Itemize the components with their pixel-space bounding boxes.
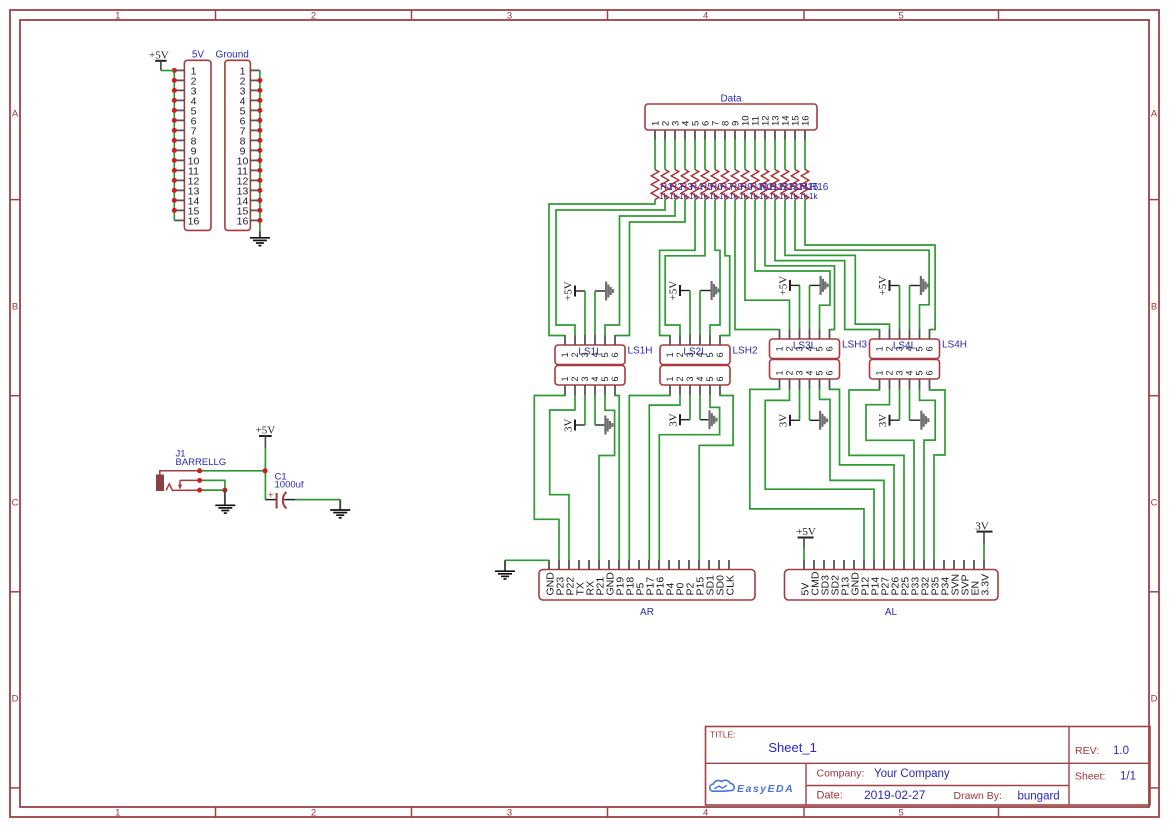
junction Ground pin 7: [257, 128, 262, 133]
title block outline: [706, 727, 1151, 806]
svg-text:5: 5: [915, 370, 925, 375]
resistor R14: [781, 170, 789, 200]
title block divider horizontal under title row: [706, 762, 1151, 764]
connector LS2 upper pin 6 stub: [719, 335, 721, 345]
ground arrow symbol above LS3: [810, 284, 820, 286]
connector LS2 lower pin 5 stub: [709, 385, 711, 395]
connector AL pin SD2 stub: [833, 560, 835, 570]
connector AR pin CLK stub: [728, 560, 730, 570]
connector LS3 upper pin 4 stub: [809, 329, 811, 339]
connector Data pin 3 stub: [674, 130, 676, 140]
svg-text:5V: 5V: [192, 50, 205, 61]
connector LS2 lower pin 1 stub: [669, 385, 671, 395]
wire LS3 pin1 to AL P12: [750, 389, 864, 560]
wire +5V to LS2 upper pin 3: [689, 291, 691, 336]
svg-text:5: 5: [705, 376, 715, 381]
power +5V symbol top-left: [155, 60, 166, 62]
connector Ground pin 14 stub: [250, 199, 260, 201]
connector AL pin GND stub: [853, 560, 855, 570]
svg-text:6: 6: [715, 352, 725, 357]
connector LS4 lower pin 1 stub: [879, 379, 881, 389]
connector AL pin P34 stub: [943, 560, 945, 570]
connector Ground pin 13 stub: [250, 189, 260, 191]
connector 5V pin 5 stub: [174, 109, 184, 111]
wire Data pin 4 to resistor R4: [684, 140, 686, 170]
connector LS1 upper pin 2 stub: [574, 335, 576, 345]
connector AR pin P16 stub: [658, 560, 660, 570]
wire R3 to LS1 pin5: [605, 200, 675, 336]
wire J1 pin3 to ground node: [200, 489, 225, 491]
connector AR pin P22 stub: [568, 560, 570, 570]
svg-text:3: 3: [507, 11, 512, 22]
svg-text:LSH2: LSH2: [733, 346, 758, 357]
svg-text:+5V: +5V: [149, 49, 169, 61]
wire LS1 pin2 to AR P22: [550, 395, 575, 560]
junction Ground pin 15: [257, 208, 262, 213]
svg-text:3: 3: [580, 352, 590, 357]
svg-text:+5V: +5V: [877, 276, 889, 296]
svg-text:4: 4: [695, 376, 705, 381]
connector AR pin P18 stub: [628, 560, 630, 570]
connector LS3 lower pin 4 stub: [809, 379, 811, 389]
wire Data pin 5 to resistor R5: [694, 140, 696, 170]
wire R2 to LS1 pin2: [556, 200, 665, 336]
ground arrow symbol below LS1: [595, 424, 604, 426]
connector Ground pin 2 stub: [250, 79, 260, 81]
connector Ground pin 5 stub: [250, 109, 260, 111]
svg-text:B: B: [1151, 302, 1157, 313]
resistor R7: [711, 170, 719, 200]
svg-text:2019-02-27: 2019-02-27: [864, 788, 926, 802]
svg-text:4: 4: [590, 376, 600, 381]
connector LS4 upper pin 4 stub: [909, 329, 911, 339]
connector AL pin 3.3V stub: [983, 560, 985, 570]
junction Ground pin 2: [257, 78, 262, 83]
svg-text:4: 4: [703, 11, 708, 22]
junction 5V pin 1: [172, 68, 177, 73]
connector LS2 lower pin 3 stub: [689, 385, 691, 395]
svg-text:16: 16: [237, 215, 249, 227]
connector 5V pin 8 stub: [174, 139, 184, 141]
resistor R2: [661, 170, 669, 200]
svg-text:1/1: 1/1: [1120, 771, 1136, 783]
svg-text:1: 1: [115, 808, 120, 819]
connector Ground pin 4 stub: [250, 99, 260, 101]
connector LS4 upper pin 6 stub: [929, 329, 931, 339]
svg-text:3: 3: [507, 808, 512, 819]
resistor R15: [791, 170, 799, 200]
ground arrow symbol below LS4: [910, 419, 921, 421]
connector Data pin 6 stub: [704, 130, 706, 140]
wire ground to LS1 lower pin 4: [594, 395, 596, 425]
connector LS3 upper pin 2 stub: [789, 329, 791, 339]
connector 5V pin 9 stub: [174, 149, 184, 151]
wire 3V to AL 3.3V pin: [983, 545, 985, 560]
connector 5V pin 7 stub: [174, 129, 184, 131]
junction 5V pin 10: [172, 158, 177, 163]
svg-text:+5V: +5V: [796, 526, 816, 538]
svg-text:5: 5: [815, 346, 825, 351]
junction ground node below J1: [222, 488, 227, 493]
connector LS4 lower pin 3 stub: [899, 379, 901, 389]
connector LS2 lower pin 6 stub: [719, 385, 721, 395]
svg-text:4: 4: [905, 346, 915, 351]
svg-text:1: 1: [560, 376, 570, 381]
svg-text:2: 2: [785, 346, 795, 351]
svg-text:4: 4: [805, 346, 815, 351]
svg-text:LS4H: LS4H: [942, 340, 967, 351]
junction 5V pin 2: [172, 78, 177, 83]
wire Data pin 8 to resistor R8: [724, 140, 726, 170]
frame tick top: [215, 10, 217, 20]
svg-text:EasyEDA: EasyEDA: [737, 783, 794, 795]
wire +5V to LS4 upper pin 3: [899, 286, 901, 330]
connector AL pin EN stub: [973, 560, 975, 570]
junction Ground pin 13: [257, 188, 262, 193]
frame tick bottom: [803, 807, 805, 817]
connector 5V outline: [184, 60, 211, 230]
junction 5V pin 8: [172, 138, 177, 143]
junction J1 pin2: [197, 478, 202, 483]
wire R11 to LS3 pin5: [755, 200, 830, 330]
power +5V symbol above LS2: [679, 285, 681, 296]
ground symbol right of C1: [339, 500, 341, 510]
connector 5V pin 14 stub: [174, 199, 184, 201]
connector Ground pin 3 stub: [250, 89, 260, 91]
connector AL pin P33 stub: [913, 560, 915, 570]
connector Data pin 5 stub: [694, 130, 696, 140]
connector AR pin RX stub: [588, 560, 590, 570]
connector Data pin 10 stub: [744, 130, 746, 140]
svg-text:4: 4: [695, 352, 705, 357]
wire Data pin 16 to resistor R16: [804, 140, 806, 170]
connector LS4 upper pin 3 stub: [899, 329, 901, 339]
connector LS4 lower pin 2 stub: [889, 379, 891, 389]
resistor R4: [681, 170, 689, 200]
wire Data pin 14 to resistor R14: [784, 140, 786, 170]
ground symbol below Ground connector: [259, 232, 261, 238]
connector AR pin GND stub: [548, 560, 550, 570]
connector LS2 upper pin 4 stub: [699, 335, 701, 345]
power +5V symbol above LS3: [789, 280, 791, 291]
wire R9 to LS3 pin1: [735, 200, 780, 330]
connector LS3 lower pin 3 stub: [799, 379, 801, 389]
wire ground to LS1 upper pin 4: [594, 291, 596, 335]
connector Data outline: [645, 104, 817, 130]
svg-text:+5V: +5V: [668, 281, 680, 301]
connector LS3 upper pin 5 stub: [819, 329, 821, 339]
connector LS1 lower pin 6 stub: [614, 385, 616, 395]
wire Data pin 10 to resistor R10: [744, 140, 746, 170]
connector AR pin P4 stub: [668, 560, 670, 570]
wire AR GND to ground: [505, 559, 549, 561]
svg-text:1: 1: [775, 370, 785, 375]
frame tick bottom: [998, 807, 1000, 817]
power +5V symbol above LS1: [574, 286, 576, 297]
svg-text:Data: Data: [720, 94, 742, 105]
svg-text:5: 5: [815, 370, 825, 375]
connector 5V pin 6 stub: [174, 119, 184, 121]
ground arrow symbol below LS2: [700, 419, 708, 421]
svg-text:5: 5: [899, 808, 904, 819]
svg-text:6: 6: [715, 376, 725, 381]
wire LS1 pin5 to AR P21: [599, 395, 615, 560]
power 3V symbol below LS3: [789, 415, 791, 426]
ground symbol left of AR: [504, 560, 506, 571]
resistor R1: [651, 170, 659, 200]
connector LS2L upper outline: [660, 345, 730, 365]
svg-text:2: 2: [570, 376, 580, 381]
connector Data pin 11 stub: [754, 130, 756, 140]
svg-text:3: 3: [895, 370, 905, 375]
connector LS1 upper pin 3 stub: [584, 335, 586, 345]
svg-text:4: 4: [590, 352, 600, 357]
svg-text:2: 2: [311, 11, 316, 22]
wire LS4 pin1 to AL P25: [849, 389, 904, 560]
junction Ground pin 14: [257, 198, 262, 203]
svg-text:D: D: [12, 694, 19, 705]
svg-text:D: D: [1151, 694, 1158, 705]
svg-text:Your Company: Your Company: [874, 768, 950, 780]
wire ground to LS4 lower pin 4: [909, 389, 911, 420]
junction 5V pin 4: [172, 98, 177, 103]
connector AR pin P21 stub: [598, 560, 600, 570]
EasyEDA logo: [710, 780, 794, 795]
junction J1 pin3: [197, 488, 202, 493]
connector AR pin P0 stub: [678, 560, 680, 570]
svg-text:6: 6: [925, 346, 935, 351]
wire +5V to 5V bus: [161, 70, 174, 72]
connector AL outline: [785, 570, 999, 601]
svg-text:1: 1: [665, 352, 675, 357]
frame tick bottom: [215, 807, 217, 817]
frame tick left: [10, 199, 20, 201]
connector J1 pin 2 switch: [180, 480, 200, 485]
connector LS1 lower pin 2 stub: [574, 385, 576, 395]
wire Data pin 9 to resistor R9: [734, 140, 736, 170]
connector LS1 lower pin 5 stub: [604, 385, 606, 395]
connector LS4 upper pin 2 stub: [889, 329, 891, 339]
svg-text:+5V: +5V: [778, 276, 790, 296]
wire R10 to LS3 pin2: [745, 200, 790, 330]
connector AL pin P27 stub: [883, 560, 885, 570]
resistor R11: [751, 170, 759, 200]
wire R6 to LS2 pin2: [665, 200, 705, 336]
frame tick top: [803, 10, 805, 20]
capacitor C1: [265, 499, 276, 501]
connector 5V pin 2 stub: [174, 79, 184, 81]
connector AL pin P12 stub: [863, 560, 865, 570]
wire LS2 pin5 to AR P16: [659, 395, 719, 560]
connector 5V pin 1 stub: [174, 69, 184, 71]
connector Ground pin 8 stub: [250, 139, 260, 141]
svg-text:6: 6: [825, 346, 835, 351]
junction 5V pin 13: [172, 188, 177, 193]
connector LS4 upper pin 5 stub: [919, 329, 921, 339]
svg-text:16: 16: [800, 115, 811, 126]
svg-text:C: C: [1151, 498, 1158, 509]
resistor R12: [761, 170, 769, 200]
junction Ground pin 16: [257, 218, 262, 223]
wire J1 pin2 to ground node: [200, 480, 225, 490]
connector LS1 lower pin 4 stub: [594, 385, 596, 395]
wire Ground bus vertical: [259, 70, 261, 231]
wire LS4 pin5 to AL P32: [920, 389, 936, 560]
connector LS3 lower outline: [770, 360, 840, 380]
resistor R5: [691, 170, 699, 200]
svg-text:4: 4: [703, 808, 708, 819]
connector AL pin P26 stub: [893, 560, 895, 570]
connector Data pin 9 stub: [734, 130, 736, 140]
wire R1 to LS1 pin1: [549, 200, 655, 336]
wire R13 to LS4 pin1: [775, 200, 880, 330]
frame tick top: [607, 10, 609, 20]
junction 5V pin 5: [172, 108, 177, 113]
svg-text:REV:: REV:: [1075, 745, 1099, 757]
wire Data pin 1 to resistor R1: [654, 140, 656, 170]
svg-text:2: 2: [675, 376, 685, 381]
connector Ground pin 12 stub: [250, 179, 260, 181]
junction 5V pin 3: [172, 88, 177, 93]
connector AL pin CMD stub: [813, 560, 815, 570]
svg-text:2: 2: [311, 808, 316, 819]
wire Data pin 6 to resistor R6: [704, 140, 706, 170]
svg-text:1k: 1k: [809, 192, 818, 201]
svg-text:1: 1: [665, 376, 675, 381]
svg-text:3.3V: 3.3V: [979, 574, 991, 596]
frame tick left: [10, 395, 20, 397]
power +5V symbol above C1: [259, 435, 272, 437]
svg-text:6: 6: [610, 352, 620, 357]
junction 5V pin 11: [172, 168, 177, 173]
connector LS2 lower pin 4 stub: [699, 385, 701, 395]
svg-text:3V: 3V: [563, 419, 575, 433]
ground symbol below J1: [224, 490, 226, 505]
resistor R10: [741, 170, 749, 200]
connector AL pin 5V stub: [803, 560, 805, 570]
connector Ground pin 6 stub: [250, 119, 260, 121]
wire LS4 pin2 to AL P33: [866, 389, 914, 560]
junction Ground pin 11: [257, 168, 262, 173]
connector LS2 upper pin 1 stub: [669, 335, 671, 345]
wire LS1 pin1 to AR P23: [534, 395, 565, 560]
connector Data pin 2 stub: [664, 130, 666, 140]
connector LS2 upper pin 2 stub: [679, 335, 681, 345]
connector AR pin P19 stub: [618, 560, 620, 570]
junction 5V pin 15: [172, 208, 177, 213]
connector LS3 lower pin 6 stub: [829, 379, 831, 389]
wire LS3 pin6 to AL P26: [830, 389, 895, 560]
junction 5V pin 14: [172, 198, 177, 203]
svg-text:6: 6: [925, 370, 935, 375]
connector 5V pin 3 stub: [174, 89, 184, 91]
wire R7 to LS2 pin5: [710, 200, 720, 336]
connector Data pin 4 stub: [684, 130, 686, 140]
connector Data pin 16 stub: [804, 130, 806, 140]
wire R4 to LS1 pin6: [615, 200, 685, 336]
connector Ground pin 15 stub: [250, 209, 260, 211]
wire ground to LS4 upper pin 4: [909, 286, 911, 330]
power 3V symbol below LS1: [574, 420, 576, 431]
svg-text:3: 3: [795, 370, 805, 375]
connector LS1 upper pin 6 stub: [614, 335, 616, 345]
wire ground to LS3 lower pin 4: [809, 389, 811, 420]
ground arrow symbol above LS4: [910, 285, 920, 287]
wire C1 to ground: [295, 499, 340, 501]
wire +5V down to C1: [264, 448, 266, 500]
resistor R13: [771, 170, 779, 200]
title block divider horizontal date row: [806, 785, 1069, 787]
connector Data pin 12 stub: [764, 130, 766, 140]
connector AR pin SD1 stub: [708, 560, 710, 570]
svg-text:Date:: Date:: [817, 790, 843, 802]
junction Ground pin 3: [257, 88, 262, 93]
connector AR outline: [539, 570, 755, 601]
power 3V symbol below LS4: [889, 415, 891, 426]
connector LS2 lower outline: [660, 366, 730, 386]
junction Ground pin 12: [257, 178, 262, 183]
ground arrow symbol above LS1: [595, 290, 605, 292]
svg-text:3: 3: [895, 346, 905, 351]
frame tick left: [10, 591, 20, 593]
connector Data pin 13 stub: [774, 130, 776, 140]
connector AR pin P5 stub: [638, 560, 640, 570]
svg-text:2: 2: [885, 346, 895, 351]
svg-text:2: 2: [570, 352, 580, 357]
connector Ground pin 9 stub: [250, 149, 260, 151]
svg-text:16: 16: [188, 215, 200, 227]
junction Ground pin 8: [257, 138, 262, 143]
junction 5V pin 7: [172, 128, 177, 133]
resistor R9: [731, 170, 739, 200]
wire 5V bus vertical: [173, 70, 175, 220]
connector Ground pin 7 stub: [250, 129, 260, 131]
connector LS4L upper outline: [870, 339, 940, 359]
connector Ground pin 10 stub: [250, 159, 260, 161]
svg-text:+5V: +5V: [256, 425, 276, 437]
power 3V symbol above AL 3.3V pin: [977, 531, 993, 533]
wire Data pin 11 to resistor R11: [754, 140, 756, 170]
wire Data pin 13 to resistor R13: [774, 140, 776, 170]
connector LS4 lower pin 4 stub: [909, 379, 911, 389]
connector Data pin 14 stub: [784, 130, 786, 140]
svg-text:1: 1: [775, 346, 785, 351]
svg-text:1: 1: [115, 11, 120, 22]
connector AL pin P32 stub: [923, 560, 925, 570]
svg-text:3: 3: [580, 376, 590, 381]
svg-text:LS1H: LS1H: [628, 346, 653, 357]
title block divider vertical logo cell: [805, 763, 807, 805]
wire Data pin 7 to resistor R7: [714, 140, 716, 170]
connector Ground pin 1 stub: [250, 69, 260, 71]
svg-text:6: 6: [610, 376, 620, 381]
svg-text:5: 5: [705, 352, 715, 357]
svg-text:3: 3: [685, 376, 695, 381]
wire 3V to LS2 lower pin 3: [689, 395, 691, 420]
svg-text:5: 5: [600, 376, 610, 381]
connector LS4 upper pin 1 stub: [879, 329, 881, 339]
frame tick top: [411, 10, 413, 20]
connector LS1 upper pin 1 stub: [564, 335, 566, 345]
connector Data pin 8 stub: [724, 130, 726, 140]
wire Data pin 12 to resistor R12: [764, 140, 766, 170]
connector LS1 lower outline: [555, 366, 625, 386]
svg-text:TITLE:: TITLE:: [710, 730, 736, 740]
wire LS2 pin6 to AR P15: [699, 395, 733, 560]
wire Data pin 3 to resistor R3: [674, 140, 676, 170]
svg-text:C: C: [12, 498, 19, 509]
wire R12 to LS3 pin6: [765, 200, 835, 330]
